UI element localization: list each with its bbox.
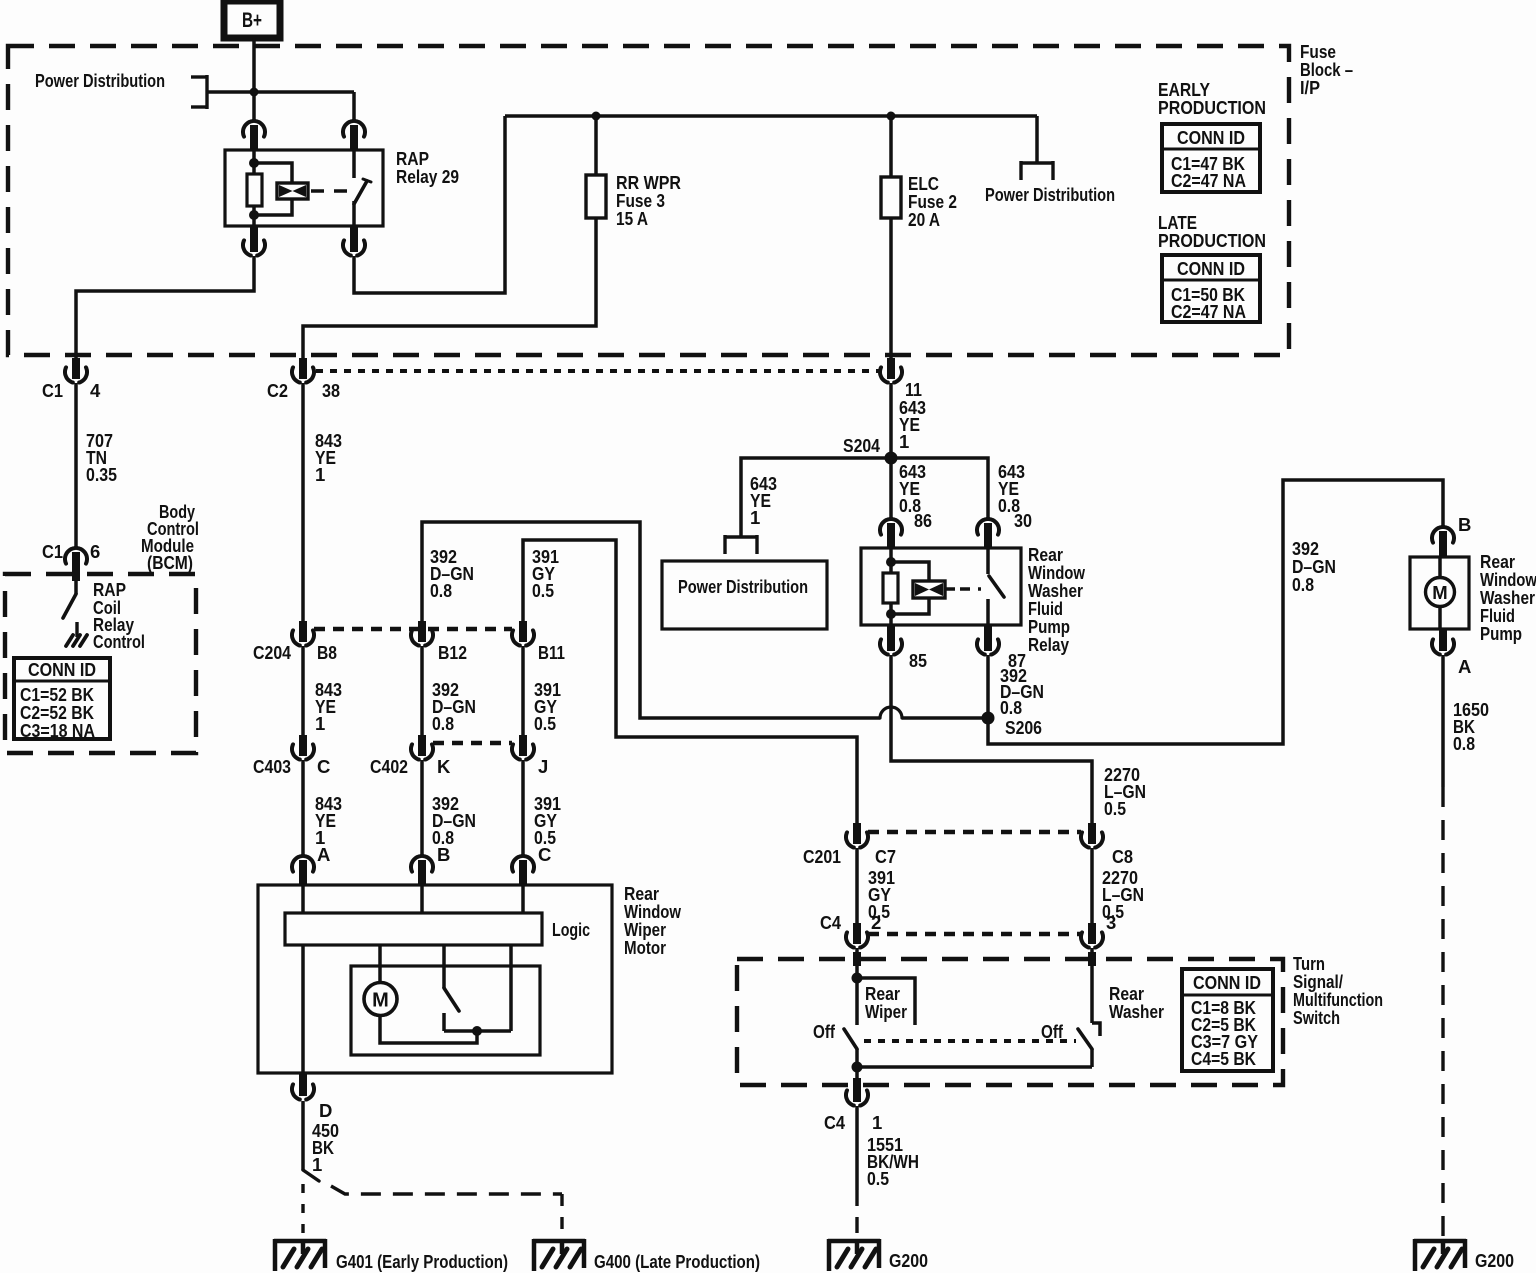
node S204 bbox=[843, 435, 898, 465]
wire pin 87 to S206 bbox=[986, 655, 990, 718]
svg-text:B8: B8 bbox=[317, 642, 337, 663]
svg-text:M: M bbox=[372, 990, 389, 1012]
label A bbox=[317, 844, 330, 865]
label Off (wiper) bbox=[813, 1021, 836, 1042]
node bus x fuse3 bbox=[592, 112, 601, 121]
connector washer relay pin 30 bbox=[977, 519, 999, 549]
label 843 YE 1 (mid) bbox=[315, 679, 342, 734]
label Body Control Module BCM bbox=[141, 501, 199, 573]
logic module box bbox=[285, 913, 590, 945]
svg-text:C: C bbox=[538, 844, 551, 865]
wire 2270 L-GN to pin 3 bbox=[1090, 848, 1094, 924]
svg-text:1: 1 bbox=[312, 1154, 322, 1175]
svg-text:6: 6 bbox=[90, 541, 100, 562]
svg-text:0.8: 0.8 bbox=[432, 713, 454, 734]
svg-text:C2=47 NA: C2=47 NA bbox=[1171, 301, 1246, 322]
label RAP Coil Relay Control bbox=[93, 579, 145, 652]
label Turn Signal Multifunction Switch bbox=[1293, 953, 1383, 1028]
wire S204 to pin 86 bbox=[889, 458, 893, 521]
connector C204 dashed link bbox=[314, 627, 512, 631]
svg-text:C402: C402 bbox=[370, 756, 408, 777]
motor washer pump M symbol bbox=[1426, 557, 1455, 629]
label 643 YE 1 (pin 11) bbox=[899, 397, 926, 452]
svg-text:0.5: 0.5 bbox=[1104, 798, 1126, 819]
power distribution bracket (left) bbox=[191, 75, 207, 109]
production split blade bbox=[303, 1170, 319, 1181]
connector C402 J bbox=[512, 735, 534, 760]
svg-text:J: J bbox=[538, 756, 548, 777]
connector C204 B8 bbox=[292, 621, 314, 646]
connector fuse block pin 11 bbox=[880, 358, 902, 383]
label Power Distribution (left) bbox=[35, 70, 165, 91]
svg-text:C8: C8 bbox=[1112, 846, 1133, 867]
connector RAP relay pin (left top) bbox=[243, 121, 265, 151]
wire logic to motor M bbox=[378, 945, 382, 983]
label C2 38 bbox=[267, 380, 340, 401]
washer pump box bbox=[1410, 557, 1469, 629]
connector C4 pin 1 bbox=[846, 1081, 868, 1106]
wire 843 YE lower bbox=[301, 760, 305, 855]
svg-text:Logic: Logic bbox=[552, 919, 590, 940]
label Rear Window Washer Fluid Pump bbox=[1480, 551, 1536, 644]
wire dashed 1650 BK to G200 bbox=[1441, 787, 1444, 1238]
connector RAP relay pin (left bottom) bbox=[243, 226, 265, 256]
motor M symbol bbox=[364, 983, 397, 1016]
wire 391 GY to C4-2 bbox=[855, 848, 859, 924]
label Rear Wiper bbox=[865, 983, 907, 1022]
svg-text:0.5: 0.5 bbox=[867, 1168, 889, 1189]
table CONN ID early bbox=[1162, 124, 1260, 192]
svg-text:S204: S204 bbox=[843, 435, 881, 456]
switch park contact blade bbox=[444, 988, 459, 1011]
node washer coil top bbox=[886, 557, 896, 567]
connector C4 dashed link bbox=[868, 932, 1081, 936]
connector C1 pin 6 bbox=[65, 548, 87, 581]
label 3 bbox=[1106, 912, 1116, 933]
label 392 D-GN 0.8 (mid) bbox=[432, 679, 476, 734]
label C1 6 bbox=[42, 541, 100, 562]
label B (pump) bbox=[1458, 514, 1471, 535]
node switch common bbox=[852, 1062, 863, 1073]
svg-text:Switch: Switch bbox=[1293, 1007, 1340, 1028]
label 843 YE 1 (lower) bbox=[315, 793, 342, 848]
turn signal switch dashed box bbox=[737, 959, 1283, 1085]
svg-text:C3=18 NA: C3=18 NA bbox=[20, 720, 95, 741]
coil RAP relay winding bbox=[254, 163, 308, 215]
ground G401 bbox=[274, 1239, 508, 1272]
svg-text:86: 86 bbox=[914, 510, 932, 531]
svg-text:PRODUCTION: PRODUCTION bbox=[1158, 230, 1266, 251]
ground G400 bbox=[533, 1239, 760, 1272]
wire pin C to logic bbox=[521, 885, 525, 913]
svg-text:CONN ID: CONN ID bbox=[28, 659, 96, 680]
label C403 bbox=[253, 756, 291, 777]
wire 392 D-GN lower bbox=[420, 760, 424, 855]
svg-text:Motor: Motor bbox=[624, 937, 666, 958]
label C402 bbox=[370, 756, 408, 777]
svg-text:B11: B11 bbox=[538, 642, 565, 663]
svg-text:C201: C201 bbox=[803, 846, 841, 867]
wire S206 to washer pump bbox=[988, 480, 1443, 744]
fuse RR WPR Fuse 3 15A bbox=[586, 175, 606, 218]
wire bus to fuse 2 bbox=[889, 116, 893, 177]
label 391 GY 0.5 (C7) bbox=[868, 867, 895, 922]
label 87 bbox=[1008, 650, 1026, 671]
svg-text:Off: Off bbox=[1041, 1021, 1064, 1042]
label Power Distribution (right) bbox=[985, 184, 1115, 205]
power distribution bracket (right) bbox=[1021, 161, 1053, 180]
svg-text:0.5: 0.5 bbox=[532, 580, 554, 601]
wire logic right drop bbox=[509, 945, 513, 1031]
resistor washer relay suppression bbox=[883, 548, 898, 625]
svg-text:4: 4 bbox=[90, 380, 101, 401]
node S206 bbox=[982, 712, 1043, 739]
label C4 2 bbox=[820, 912, 881, 933]
svg-text:C204: C204 bbox=[253, 642, 292, 663]
connector motor pin B bbox=[411, 856, 433, 886]
label C (motor) bbox=[538, 844, 551, 865]
label LATE PRODUCTION bbox=[1158, 212, 1266, 251]
connector motor pin A bbox=[292, 856, 314, 886]
connector C201 C7 bbox=[846, 823, 868, 848]
label 391 GY 0.5 (mid) bbox=[534, 679, 561, 734]
svg-text:0.8: 0.8 bbox=[1000, 697, 1022, 718]
wire B+ drop bbox=[252, 38, 256, 121]
svg-text:0.8: 0.8 bbox=[1292, 574, 1314, 595]
wire 2270 L-GN pin 85 to C8 bbox=[891, 655, 1092, 824]
svg-text:2: 2 bbox=[871, 912, 881, 933]
wire logic to pin D bbox=[301, 945, 305, 1073]
connector motor pin C bbox=[512, 856, 534, 886]
svg-text:B: B bbox=[1458, 514, 1471, 535]
svg-text:CONN ID: CONN ID bbox=[1177, 127, 1245, 148]
wire pin A to logic bbox=[301, 885, 305, 913]
relay rear window washer fluid pump relay box bbox=[861, 548, 1021, 625]
switch RAP relay contact bbox=[354, 150, 371, 226]
svg-text:Control: Control bbox=[93, 631, 145, 652]
mech link wiper-washer bbox=[864, 1039, 1076, 1043]
svg-text:C2: C2 bbox=[267, 380, 288, 401]
wire switch common bbox=[857, 1065, 1092, 1069]
label B11 bbox=[538, 642, 565, 663]
resistor RAP relay coil-suppression bbox=[247, 150, 262, 226]
connector C2 dotted boundary bbox=[316, 369, 881, 373]
svg-text:C: C bbox=[317, 756, 330, 777]
label C7 bbox=[875, 846, 896, 867]
svg-text:Off: Off bbox=[813, 1021, 836, 1042]
label RR WPR Fuse 3 15 A bbox=[616, 172, 681, 229]
wire dashed to G401 bbox=[301, 1184, 304, 1240]
mech link washer relay bbox=[960, 587, 981, 590]
label 392 D-GN 0.8 (pin 87) bbox=[1000, 665, 1044, 718]
svg-text:85: 85 bbox=[909, 650, 927, 671]
svg-text:C2=47 NA: C2=47 NA bbox=[1171, 170, 1246, 191]
label C8 bbox=[1112, 846, 1133, 867]
connector C1 pin 4 bbox=[65, 358, 87, 383]
svg-text:(BCM): (BCM) bbox=[147, 552, 193, 573]
ground BCM internal bbox=[66, 622, 87, 646]
connector C403 C bbox=[292, 735, 314, 760]
label C (C403) bbox=[317, 756, 330, 777]
svg-text:A: A bbox=[317, 844, 330, 865]
wire pin B to logic bbox=[420, 885, 424, 913]
node rear wiper tap bbox=[852, 973, 863, 984]
wire 391 GY to C201 bbox=[523, 540, 857, 824]
svg-text:C1: C1 bbox=[42, 380, 63, 401]
svg-text:G200: G200 bbox=[889, 1250, 928, 1271]
svg-text:0.8: 0.8 bbox=[430, 580, 452, 601]
inner motor assembly box bbox=[351, 966, 540, 1055]
svg-text:Washer: Washer bbox=[1109, 1001, 1164, 1022]
label A (pump) bbox=[1458, 656, 1471, 677]
label B (motor) bbox=[437, 844, 450, 865]
svg-text:Power Distribution: Power Distribution bbox=[678, 576, 808, 597]
label ELC Fuse 2 20 A bbox=[908, 173, 957, 230]
label 392 D-GN 0.8 (lower) bbox=[432, 793, 476, 848]
label C204 bbox=[253, 642, 292, 663]
coil washer relay winding bbox=[891, 562, 955, 614]
label Fuse Block I/P bbox=[1300, 41, 1353, 98]
svg-text:Wiper: Wiper bbox=[865, 1001, 907, 1022]
switch rear washer blade bbox=[1078, 1029, 1092, 1067]
wire 450 BK bbox=[301, 1101, 305, 1170]
connector C201 dashed link bbox=[868, 830, 1081, 834]
label 643 YE 1 (branch) bbox=[750, 473, 777, 528]
ground G200 (left) bbox=[828, 1239, 928, 1271]
svg-text:Relay: Relay bbox=[1028, 634, 1070, 655]
wire dashed to G400 bbox=[331, 1186, 562, 1240]
label J bbox=[538, 756, 548, 777]
svg-text:B12: B12 bbox=[438, 642, 467, 663]
svg-text:S206: S206 bbox=[1005, 717, 1042, 738]
wire park switch lower contact bbox=[444, 1013, 511, 1031]
label EARLY PRODUCTION bbox=[1158, 79, 1266, 118]
node park common bbox=[472, 1026, 482, 1036]
table CONN ID turn signal bbox=[1182, 969, 1273, 1071]
svg-text:G401 (Early Production): G401 (Early Production) bbox=[336, 1251, 508, 1272]
svg-text:C4=5 BK: C4=5 BK bbox=[1191, 1048, 1257, 1069]
node bus x fuse2 bbox=[887, 112, 896, 121]
label 707 TN 0.35 bbox=[86, 430, 117, 485]
wire RAP relay to bus bbox=[354, 116, 505, 293]
wire RAP relay to C1-4 bbox=[76, 256, 254, 358]
svg-text:C403: C403 bbox=[253, 756, 291, 777]
wire power distribution to relay bbox=[207, 92, 354, 121]
connector C402 K bbox=[411, 735, 433, 760]
fuse block I/P dashed box bbox=[8, 46, 1289, 355]
wire logic to park switch bbox=[442, 945, 446, 988]
svg-text:C7: C7 bbox=[875, 846, 896, 867]
relay RAP Relay 29 box bbox=[225, 150, 383, 226]
label B12 bbox=[438, 642, 467, 663]
label C4 1 bbox=[824, 1112, 882, 1133]
svg-text:G200: G200 bbox=[1475, 1250, 1514, 1271]
svg-text:M: M bbox=[1432, 582, 1447, 603]
label 2270 L-GN 0.5 (upper) bbox=[1104, 764, 1146, 819]
svg-text:K: K bbox=[437, 756, 451, 777]
switch RAP coil relay control bbox=[63, 581, 76, 618]
connector C201 C8 bbox=[1081, 823, 1103, 848]
label 643 YE 0.8 30 bbox=[998, 461, 1032, 531]
svg-text:Pump: Pump bbox=[1480, 623, 1522, 644]
power distribution box (middle) bbox=[662, 561, 827, 629]
connector washer relay pin 86 bbox=[880, 519, 902, 549]
wire 391 GY lower bbox=[521, 760, 525, 855]
svg-text:1: 1 bbox=[315, 464, 325, 485]
svg-text:C1: C1 bbox=[42, 541, 63, 562]
connector C204 B11 bbox=[512, 621, 534, 646]
connector pump pin B bbox=[1432, 527, 1454, 558]
wire 392 D-GN to S206 bbox=[422, 522, 983, 718]
svg-text:PRODUCTION: PRODUCTION bbox=[1158, 97, 1266, 118]
hop wire crossing bbox=[880, 707, 902, 718]
BCM dashed box bbox=[5, 574, 196, 753]
label Off (washer) bbox=[1041, 1021, 1064, 1042]
connector C2 pin 38 bbox=[292, 358, 314, 383]
svg-text:B: B bbox=[437, 844, 450, 865]
wire pin2 into switch bbox=[855, 948, 859, 1025]
wire bus to power distribution (right) bbox=[1035, 116, 1039, 163]
switch rear wiper blade bbox=[844, 1029, 857, 1067]
bracket Rear Wiper bbox=[857, 978, 915, 1025]
label C1 4 bbox=[42, 380, 101, 401]
wire dashed to G200 bbox=[855, 1190, 858, 1238]
label 843 YE 1 (upper) bbox=[315, 430, 342, 485]
connector RAP relay pin (right bottom) bbox=[343, 226, 365, 256]
wire pin3 into switch bbox=[1092, 948, 1100, 1036]
wire S204 to pin 30 bbox=[891, 458, 988, 521]
svg-text:B+: B+ bbox=[242, 9, 262, 32]
label 11 bbox=[905, 379, 922, 400]
wire motor M to park common bbox=[380, 1015, 477, 1043]
node RAP coil top bbox=[249, 158, 259, 168]
svg-text:0.8: 0.8 bbox=[1453, 733, 1475, 754]
svg-text:C4: C4 bbox=[824, 1112, 846, 1133]
label C201 bbox=[803, 846, 841, 867]
svg-text:I/P: I/P bbox=[1300, 77, 1320, 98]
label 391 GY 0.5 (loop) bbox=[532, 546, 559, 601]
svg-text:Power Distribution: Power Distribution bbox=[985, 184, 1115, 205]
connector washer relay pin 87 bbox=[977, 625, 999, 655]
power distribution bracket (middle) bbox=[725, 535, 757, 554]
svg-text:0.35: 0.35 bbox=[86, 464, 117, 485]
label 643 YE 0.8 86 bbox=[899, 461, 932, 531]
svg-text:A: A bbox=[1458, 656, 1471, 677]
wire 1650 BK bbox=[1441, 655, 1445, 787]
wire 843 YE mid bbox=[301, 646, 305, 736]
svg-text:C4: C4 bbox=[820, 912, 842, 933]
label 391 GY 0.5 (lower) bbox=[534, 793, 561, 848]
svg-text:CONN ID: CONN ID bbox=[1193, 972, 1261, 993]
connector C4 pin 2 bbox=[846, 923, 868, 948]
wire common to C4-1 bbox=[855, 1067, 859, 1092]
svg-text:0.5: 0.5 bbox=[534, 713, 556, 734]
label 450 BK 1 bbox=[312, 1120, 339, 1175]
svg-text:1: 1 bbox=[872, 1112, 882, 1133]
label B8 bbox=[317, 642, 337, 663]
svg-text:1: 1 bbox=[750, 507, 760, 528]
motor box rear window wiper motor bbox=[258, 885, 612, 1073]
wire 1551 BK/WH bbox=[855, 1106, 859, 1190]
wire 392 D-GN mid bbox=[420, 646, 424, 736]
connector C402 dashed link bbox=[433, 741, 512, 745]
svg-text:1: 1 bbox=[315, 713, 325, 734]
connector RAP relay pin (right top) bbox=[343, 121, 365, 151]
svg-text:CONN ID: CONN ID bbox=[1177, 258, 1245, 279]
svg-text:15 A: 15 A bbox=[616, 208, 648, 229]
wire 643 YE to S204 bbox=[889, 383, 893, 458]
label RAP Relay 29 bbox=[396, 148, 459, 187]
label Rear Window Washer Fluid Pump Relay bbox=[1028, 544, 1085, 655]
node RAP coil bottom bbox=[249, 210, 259, 220]
wire 843 YE upper bbox=[301, 383, 305, 622]
svg-text:Relay 29: Relay 29 bbox=[396, 166, 459, 187]
label D bbox=[319, 1100, 332, 1121]
svg-text:1: 1 bbox=[899, 431, 909, 452]
node washer coil bottom bbox=[886, 609, 896, 619]
svg-text:D: D bbox=[319, 1100, 332, 1121]
wire 707 TN bbox=[74, 383, 78, 548]
svg-text:G400 (Late Production): G400 (Late Production) bbox=[594, 1251, 760, 1272]
switch washer relay contact bbox=[988, 548, 1004, 625]
ground G200 (right) bbox=[1414, 1239, 1514, 1271]
fuse ELC Fuse 2 20A bbox=[881, 177, 901, 218]
svg-text:Power Distribution: Power Distribution bbox=[35, 70, 165, 91]
label 392 D-GN 0.8 (pump) bbox=[1292, 538, 1336, 595]
connector switch pin 3 bbox=[1081, 923, 1103, 948]
label Rear Window Wiper Motor bbox=[624, 883, 681, 958]
label 2270 L-GN 0.5 (C8) bbox=[1102, 867, 1144, 922]
connector C204 B12 bbox=[411, 621, 433, 646]
table CONN ID BCM bbox=[14, 658, 110, 741]
connector washer relay pin 85 bbox=[880, 625, 902, 655]
wire fuse 2 to pin 11 bbox=[889, 218, 893, 358]
wire fuse 3 to C2-38 bbox=[303, 218, 596, 358]
svg-text:3: 3 bbox=[1106, 912, 1116, 933]
battery feed B+ bbox=[224, 1, 280, 38]
label K bbox=[437, 756, 451, 777]
label 392 D-GN 0.8 (loop) bbox=[430, 546, 474, 601]
wire 391 GY mid bbox=[521, 646, 525, 736]
connector pump pin A bbox=[1432, 629, 1454, 655]
connector motor pin D bbox=[292, 1073, 314, 1100]
label 1650 BK 0.8 bbox=[1453, 699, 1489, 754]
junction B+ x power wire bbox=[250, 88, 259, 97]
wire S204 to power distribution bbox=[741, 458, 891, 537]
svg-text:20 A: 20 A bbox=[908, 209, 940, 230]
label 85 bbox=[909, 650, 927, 671]
svg-text:30: 30 bbox=[1014, 510, 1032, 531]
label Rear Washer bbox=[1109, 983, 1164, 1022]
mech link RAP relay bbox=[311, 189, 348, 192]
table CONN ID late bbox=[1162, 255, 1260, 322]
wire fuse bus bbox=[505, 114, 1037, 118]
wire bus to fuse 3 bbox=[594, 116, 598, 175]
svg-text:38: 38 bbox=[322, 380, 340, 401]
label 1551 BK/WH 0.5 bbox=[867, 1134, 919, 1189]
